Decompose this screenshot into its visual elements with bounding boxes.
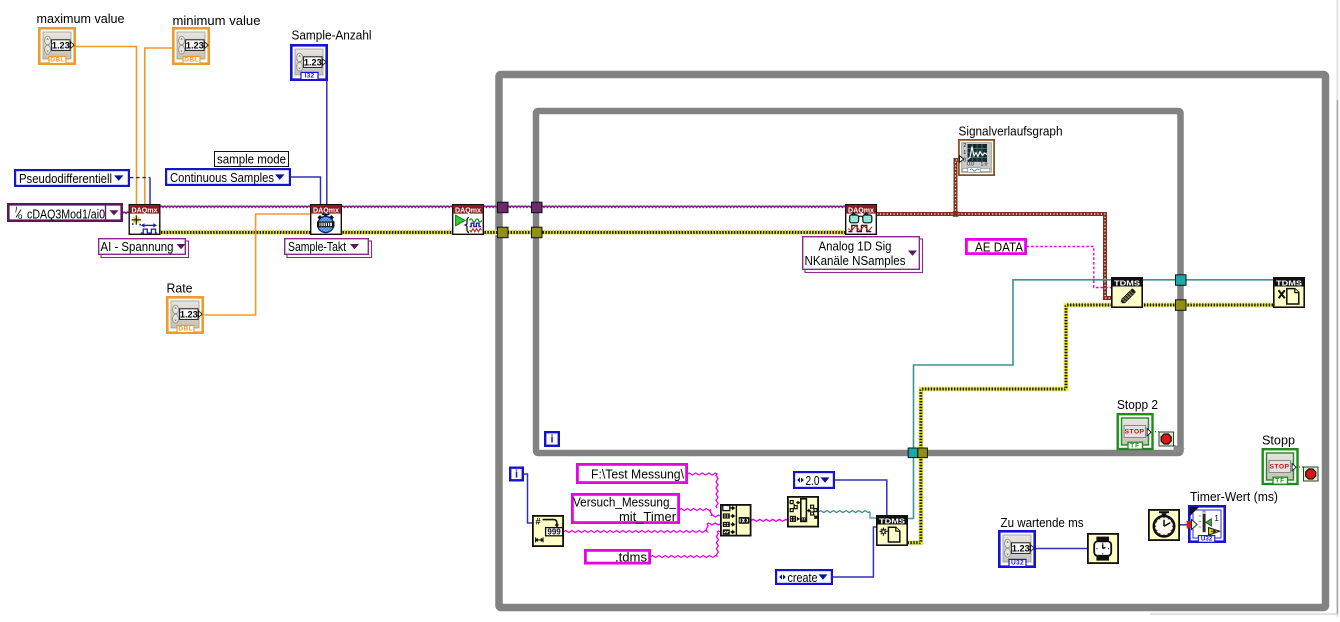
enum constant Pseudodifferentiell (15, 170, 129, 186)
wire: AE DATA to TDMS write group input (pink dashed) (1027, 247, 1112, 288)
svg-text:minimum value: minimum value (173, 13, 261, 28)
tunnel: task wire on outer loop left (498, 202, 509, 213)
wire: error TDMS open to TDMS write (906, 305, 1112, 543)
conditional terminal inner loop (1159, 432, 1174, 446)
DAQmx create virtual channel (129, 205, 160, 235)
wire: DAQmx task start to read crossing loop tunnels (purple wavy) (483, 205, 846, 208)
TDMS open (877, 516, 907, 545)
wire: Sample-Anzahl to DAQmx timing (blue) (326, 61, 328, 205)
svg-text:999: 999 (547, 528, 561, 537)
svg-text:AI - Spannung: AI - Spannung (101, 240, 174, 254)
svg-text:Rate: Rate (167, 281, 193, 296)
numeric control Sample-Anzahl (I32) (291, 45, 326, 79)
svg-text:F:\Test Messung\: F:\Test Messung\ (591, 467, 684, 482)
wire: Stopp 2 to inner conditional terminal (dotted) (1152, 431, 1159, 433)
string constant Versuch_Messung_mit_Timer (572, 494, 678, 524)
svg-text:mit_Timer: mit_Timer (619, 509, 677, 524)
svg-text:cDAQ3Mod1/ai0: cDAQ3Mod1/ai0 (27, 207, 105, 222)
wire: TDMS write file to TDMS close crossing tunnel (teal) (1143, 279, 1274, 281)
TDMS write (1112, 278, 1142, 307)
iteration terminal outer loop (510, 468, 523, 481)
wire: error start to read crossing loop tunnels (483, 230, 846, 235)
polymorphic selector AI - Spannung (99, 239, 189, 258)
wire: path string-to-path to TDMS open (teal zigzag) (819, 511, 870, 513)
svg-text:TDMS: TDMS (1114, 278, 1140, 287)
wire: string .tdms to concatenate (pink zigzag) (651, 531, 720, 557)
numeric control Rate (DBL) (167, 297, 202, 332)
svg-text:Sample-Takt: Sample-Takt (288, 240, 346, 254)
tunnel: error wire on inner loop left (532, 227, 543, 238)
DAQmx read (846, 205, 877, 235)
ring constant create (776, 570, 832, 585)
svg-text:AE DATA: AE DATA (975, 240, 1023, 255)
svg-text:Continuous Samples: Continuous Samples (170, 170, 274, 185)
svg-text:STOP: STOP (1270, 463, 1290, 470)
number to decimal string (533, 516, 563, 546)
svg-text:I32: I32 (304, 73, 314, 80)
io name constant cDAQ3Mod1/ai0 (8, 204, 121, 221)
wire: Rate to DAQmx timing (orange) (205, 214, 311, 315)
enum constant Continuous Samples (166, 169, 290, 185)
polymorphic selector Sample-Takt (285, 239, 372, 258)
wire: string F:\Test Messung\ to concatenate (pink zigzag) (688, 473, 719, 508)
wire: error create to timing (yellow/black dashed) (160, 230, 311, 235)
svg-text:DAQmx: DAQmx (848, 205, 875, 214)
TDMS close (1274, 278, 1304, 307)
wire: concatenate output to string-to-path (pink zigzag) (752, 519, 788, 521)
numeric control minimum value (DBL) (173, 28, 208, 63)
conditional terminal outer loop (1304, 467, 1319, 481)
svg-text:sample mode: sample mode (217, 153, 286, 167)
string constant AE DATA (966, 239, 1025, 254)
wire: create ring to TDMS open operation input (blue) (833, 527, 877, 577)
wire: Stopp to outer conditional terminal (dotted) (1296, 466, 1304, 468)
svg-text:1: 1 (1214, 513, 1219, 523)
string constant .tdms (585, 550, 649, 564)
wire: Pseudodifferentiell to DAQmx create (dashed + blue) (130, 177, 150, 179)
svg-text:1.23: 1.23 (180, 309, 198, 319)
svg-text:i: i (550, 434, 553, 446)
polymorphic selector Analog 1D Sig NKanäle NSamples (803, 237, 923, 273)
string constant F:\Test Messung\ (577, 464, 686, 482)
concatenate strings (721, 505, 751, 536)
svg-text:Analog 1D Sig: Analog 1D Sig (819, 239, 892, 253)
wait ms (1088, 534, 1118, 563)
tunnel: task wire on inner loop left (532, 202, 543, 213)
svg-text:Stopp 2: Stopp 2 (1117, 397, 1158, 412)
wire: tick count to Timer-Wert indicator (blue) (1180, 524, 1189, 526)
wire: waveform data branch to Signalverlaufsgraph (brown hatched) (956, 160, 959, 214)
svg-text:1.23: 1.23 (52, 40, 70, 50)
svg-text:DAQmx: DAQmx (313, 205, 340, 214)
wire: number string to concatenate (pink zigzag) (564, 523, 720, 533)
svg-text:0: 0 (963, 157, 966, 163)
slide indicator Timer-Wert (ms) (1189, 506, 1224, 542)
outer while loop border (499, 75, 1326, 608)
tunnel: error on inner loop bottom (918, 448, 928, 458)
svg-text:DBL: DBL (50, 57, 64, 64)
svg-text:U32: U32 (1201, 536, 1213, 543)
svg-text:Stopp: Stopp (1262, 433, 1295, 448)
svg-text:Zu wartende ms: Zu wartende ms (1001, 515, 1084, 530)
label sample mode (boxed) (215, 152, 289, 167)
svg-text:create: create (788, 570, 818, 585)
DAQmx start task (453, 205, 484, 235)
wire: string Versuch_Messung_mit_Timer to concatenate (pink zigzag) (680, 509, 720, 517)
svg-text:2.0: 2.0 (806, 473, 820, 488)
svg-text:DAQmx: DAQmx (455, 205, 482, 214)
svg-text:Pseudodifferentiell: Pseudodifferentiell (19, 171, 112, 186)
wire: error timing to start (341, 230, 453, 235)
wire: TDMS open file to TDMS write crossing tunnels (teal) (908, 280, 1112, 519)
waveform graph terminal Signalverlaufsgraph (959, 140, 994, 175)
string to path (788, 497, 818, 527)
tunnel: error on inner loop right (1176, 300, 1187, 311)
svg-text:DBL: DBL (184, 57, 198, 64)
svg-text:#: # (535, 516, 541, 527)
inner while loop border (536, 111, 1181, 453)
svg-text:TDMS: TDMS (1276, 278, 1302, 287)
iteration terminal inner loop (545, 432, 559, 446)
wire: Continuous Samples to DAQmx timing (blue) (291, 177, 321, 205)
tunnel: tdms file on inner loop bottom (908, 448, 918, 458)
svg-text:maximum value: maximum value (37, 11, 125, 26)
svg-text:1.0: 1.0 (981, 161, 988, 167)
wire: minimum value to DAQmx create (orange) (145, 48, 173, 205)
wire: io name cDAQ3Mod1/ai0 to DAQmx create channel (purple squiggle) (123, 211, 130, 214)
svg-text:0.0: 0.0 (967, 161, 974, 167)
svg-text:1.23: 1.23 (304, 57, 322, 67)
wire: error TDMS write to TDMS close crossing tunnel (1143, 302, 1274, 307)
boolean button Stopp 2 (1118, 414, 1153, 449)
wire: outer iteration terminal to number-to-string (blue) (524, 474, 533, 523)
tunnel: tdms file on inner loop right (1176, 275, 1187, 286)
wire: DAQmx task timing to start (purple wavy) (341, 205, 453, 208)
svg-text:TF: TF (1130, 442, 1140, 449)
svg-text:Timer-Wert (ms): Timer-Wert (ms) (1190, 489, 1278, 504)
svg-text:Versuch_Messung_: Versuch_Messung_ (573, 494, 677, 509)
svg-text:DBL: DBL (178, 326, 192, 333)
wire: waveform data DAQmx read to TDMS write (brown hatched) (877, 214, 1112, 298)
svg-text:Sample-Anzahl: Sample-Anzahl (292, 28, 372, 43)
svg-text:DAQmx: DAQmx (132, 205, 159, 214)
DAQmx timing (311, 205, 342, 235)
wire: maximum value to DAQmx create (orange) (76, 47, 137, 205)
svg-text:TF: TF (1275, 477, 1285, 484)
svg-text:TDMS: TDMS (879, 516, 905, 525)
svg-text:1.23: 1.23 (1012, 543, 1030, 553)
tunnel: error wire on outer loop left (498, 227, 509, 238)
svg-text:U32: U32 (1011, 560, 1024, 567)
svg-text:o: o (18, 212, 23, 221)
svg-text:1: 1 (963, 150, 966, 156)
svg-text:Signalverlaufsgraph: Signalverlaufsgraph (959, 124, 1063, 139)
wire: Zu wartende ms to Wait(ms) (blue) (1036, 548, 1088, 550)
coercion dot at Timer-Wert input (1187, 521, 1192, 528)
tick count clock (1149, 510, 1179, 540)
junction: waveform data wire (953, 211, 959, 217)
numeric control maximum value (DBL) (39, 28, 74, 63)
svg-text:.tdms: .tdms (615, 550, 647, 564)
numeric control Zu wartende ms (U32) (999, 531, 1034, 566)
svg-text:2: 2 (963, 143, 966, 149)
boolean button Stopp (1263, 449, 1298, 484)
wire: 2.0 ring to TDMS open version input (blue) (835, 480, 887, 516)
svg-text:NKanäle NSamples: NKanäle NSamples (805, 254, 906, 268)
ring constant 2.0 (794, 472, 834, 488)
svg-text:STOP: STOP (1125, 428, 1145, 435)
svg-text:i: i (515, 469, 518, 481)
svg-text:1.23: 1.23 (186, 40, 204, 50)
wire: DAQmx task create to timing (purple wavy) (160, 205, 311, 208)
